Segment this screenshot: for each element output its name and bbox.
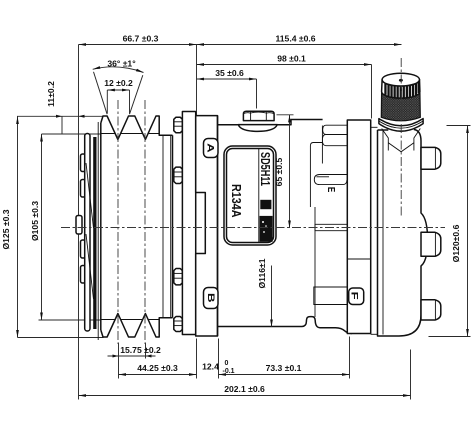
dim 12 line (106, 90, 108, 114)
center tab at rear (315, 224, 347, 230)
clutch armature hub cap (76, 216, 82, 235)
clutch leaf springs (diagonals) (86, 163, 94, 228)
pulley cylinder bottom edge segments (101, 319, 159, 321)
cap top face (382, 73, 419, 86)
svg-text:F: F (349, 292, 360, 300)
svg-text:Ø125 ±0.3: Ø125 ±0.3 (1, 209, 11, 249)
svg-text:A: A (205, 143, 216, 153)
svg-text:0: 0 (225, 360, 229, 367)
dim 36 degree fan (94, 72, 108, 114)
cap flange rings (379, 119, 423, 132)
groove 2 centerline (144, 100, 146, 344)
svg-text:12.4: 12.4 (202, 362, 219, 372)
svg-text:Ø105 ±0.3: Ø105 ±0.3 (30, 201, 40, 241)
rear lower channel (314, 175, 347, 185)
suction port hex nut (243, 111, 274, 120)
suction port boss dome on body top (238, 125, 277, 132)
pulley rear face (172, 135, 174, 318)
dim 115.4 line (197, 44, 402, 46)
rear body face line (314, 207, 316, 317)
pulley rear hub inner lines (162, 136, 164, 317)
svg-text:SD5H11: SD5H11 (258, 152, 272, 186)
svg-text:R134A: R134A (229, 184, 244, 218)
svg-text:202.1 ±0.6: 202.1 ±0.6 (224, 384, 265, 394)
oil port centerline (400, 58, 402, 218)
front housing bolt 4 (174, 317, 183, 332)
cap teeth band (382, 80, 420, 99)
label logo black bar (260, 216, 273, 242)
svg-text:-0.1: -0.1 (223, 368, 235, 375)
svg-text:66.7 ±0.3: 66.7 ±0.3 (123, 34, 159, 44)
dim dia120 (447, 125, 471, 127)
cylinder body (218, 120, 353, 334)
svg-text:65 ±0.5: 65 ±0.5 (274, 157, 284, 186)
rear mounting plate (347, 120, 370, 334)
dim 202.1 (410, 350, 412, 400)
dim reference extension line x=196 (196, 45, 198, 119)
rear head boss nut 2 (421, 232, 441, 256)
neck chevron (388, 143, 414, 152)
svg-text:E: E (325, 187, 337, 192)
front housing bolt 1 (174, 117, 183, 133)
dim 11 line (61, 117, 63, 135)
pulley outline bottom (101, 314, 173, 338)
front housing bolt 2 (174, 167, 183, 183)
svg-text:Ø120±0.6: Ø120±0.6 (451, 224, 461, 262)
svg-text:15.75 ±0.2: 15.75 ±0.2 (120, 345, 161, 355)
pulley front rim face lines (97, 122, 99, 340)
pulley cylinder top edge segments (101, 133, 159, 135)
front housing bolt 3 (174, 269, 183, 285)
svg-text:35 ±0.6: 35 ±0.6 (215, 68, 244, 78)
dim 35 line (256, 79, 258, 109)
svg-text:36° ±1°: 36° ±1° (107, 59, 136, 69)
svg-text:B: B (205, 293, 216, 303)
port label A box (204, 139, 219, 158)
pulley front face (100, 123, 102, 330)
svg-text:12 ±0.2: 12 ±0.2 (104, 78, 133, 88)
rear head (378, 130, 422, 336)
dim 15.75 (118, 343, 120, 379)
dim 66.7 line (79, 44, 197, 46)
dim 65 (over body) (274, 115, 294, 228)
svg-text:Ø116±1: Ø116±1 (257, 258, 267, 288)
groove 1 centerline (117, 100, 119, 344)
rear head boss nut 1 (421, 147, 441, 169)
dim dia105 (42, 133, 101, 135)
rear section channels (323, 125, 347, 134)
cap knurled band (381, 92, 420, 121)
rear head boss nut 3 (421, 300, 441, 320)
cap center dot (399, 79, 403, 82)
port label F box (349, 288, 364, 305)
dim 44.25 / 12.4 / 73.3 shared line (218, 339, 220, 379)
dim 66.7 extension line left (78, 45, 80, 400)
front cylinder head (tabs with A/B ports) (196, 116, 218, 336)
oil port neck (388, 131, 415, 156)
svg-text:11±0.2: 11±0.2 (46, 81, 56, 107)
plate-to-head ledges (371, 126, 378, 128)
clutch front dust plate (85, 134, 90, 332)
svg-text:44.25 ±0.3: 44.25 ±0.3 (137, 363, 178, 373)
compressor nameplate label (224, 146, 276, 245)
dim 98 line (371, 65, 373, 119)
svg-text:73.3 ±0.1: 73.3 ±0.1 (266, 363, 302, 373)
F port boss (314, 287, 347, 305)
clutch friction face (thick black) (93, 137, 96, 329)
label logo black square (260, 200, 271, 209)
dim dia116 leader (over body) (257, 258, 272, 327)
port label B box (204, 288, 219, 309)
svg-text:98 ±0.1: 98 ±0.1 (277, 54, 306, 64)
front housing flange plate (182, 112, 195, 335)
svg-text:115.4 ±0.6: 115.4 ±0.6 (275, 34, 315, 44)
body front face (217, 116, 219, 336)
dim dia125 (18, 337, 104, 339)
pulley outline top (101, 116, 173, 140)
main horizontal centerline (61, 227, 445, 229)
clutch leaf-spring tabs (81, 154, 86, 172)
